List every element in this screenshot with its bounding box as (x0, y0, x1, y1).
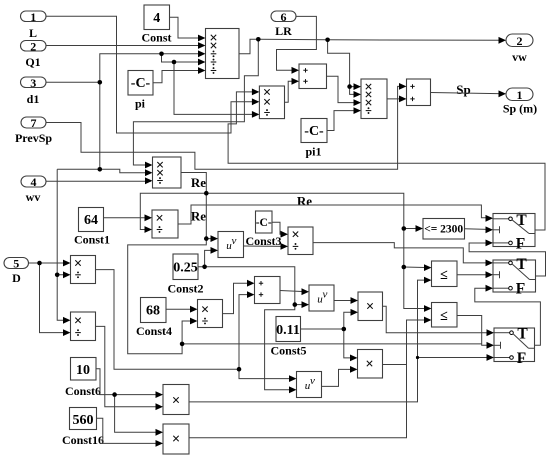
svg-text:≤: ≤ (440, 309, 448, 324)
svg-text:F: F (516, 235, 525, 252)
svg-text:T: T (516, 212, 527, 229)
wire 0.11 up branch to X1 input2 (344, 312, 357, 329)
junction node d1 y62 (172, 60, 177, 65)
inport 4 wv (21, 175, 46, 204)
svg-text:F: F (516, 281, 525, 298)
wire d1 down branch to Re1 area (99, 82, 101, 169)
math function block u^v 3 (297, 372, 322, 398)
wire U6 output to switch2 T input with jog (313, 243, 492, 263)
relational operator block LE1 (432, 261, 458, 287)
svg-text:Re: Re (191, 209, 206, 224)
product block Re1 three inputs x x / (153, 157, 182, 188)
wire Const3 to U6 input1 (272, 222, 287, 234)
wire sum U3 output to U4 input3 (327, 76, 360, 102)
wire X1 output to switch3 T input (383, 306, 493, 332)
wire Re node left branch to Re2 input2 (140, 193, 206, 229)
svg-text:L: L (29, 26, 37, 40)
product block U4 four inputs x x x / (361, 79, 387, 119)
svg-text:wv: wv (26, 190, 41, 204)
wire d1 left branch down to product a input2 (57, 169, 69, 274)
junction node on d1 wire (98, 80, 103, 85)
constant block Const16 value 560 (62, 408, 104, 448)
junction node X3 line branch (416, 356, 419, 359)
wire 0.11 down branch to X2 input1 (344, 329, 356, 358)
product block X1 single x (358, 292, 383, 321)
wire LE1 output to switch2 middle input (457, 274, 492, 276)
svg-text:v: v (310, 375, 315, 387)
svg-text:2: 2 (30, 39, 36, 53)
wire vw main line to outport vw (258, 39, 504, 40)
svg-text:7: 7 (31, 116, 37, 130)
sum block U5 + + (407, 79, 431, 106)
relational operator block <= 2300 (423, 219, 465, 240)
svg-text:68: 68 (146, 304, 160, 319)
product block b x / d1 over D (71, 312, 96, 341)
wire X2 output to LE2 input2 (383, 320, 431, 365)
wire Q1 to product U1 input2 (46, 45, 204, 47)
svg-text:5: 5 (13, 257, 19, 271)
svg-text:Sp (m): Sp (m) (503, 102, 537, 116)
junction node D wire (37, 261, 42, 266)
wire Re2 output long line y205 to switch1 T input (178, 205, 492, 224)
product block U6 x / right of Const3 (288, 227, 313, 255)
wire d1 horizontal at y169 to Re1 input2 (57, 169, 151, 172)
wire 10 junction down to X4 input1 (115, 395, 162, 433)
svg-text:pi: pi (135, 97, 146, 111)
constant block Const6 value 10 (65, 358, 101, 399)
relational operator block LE2 (432, 303, 458, 328)
wire Const2 0.25 line (198, 267, 295, 305)
svg-text:pi1: pi1 (305, 145, 321, 159)
junction node Re loop y344 (180, 342, 185, 347)
svg-text:4: 4 (153, 11, 160, 26)
sum block U8 + + (255, 277, 281, 304)
junction node 0.11 line (342, 327, 347, 332)
svg-text:v: v (323, 289, 328, 301)
wire relational <=2300 output to switch1 middle input (465, 228, 492, 231)
wire Re vertical node to uv1 input1 (206, 238, 216, 240)
svg-text:Const16: Const16 (62, 433, 104, 447)
constant block pi -C- (128, 71, 153, 111)
product block U1 five inputs x x / / / (206, 29, 240, 79)
wire d1 up branch to U1 input3 (100, 54, 204, 83)
svg-text:10: 10 (76, 363, 90, 378)
switch block SW1 (493, 212, 535, 253)
wire d1 branch down to U2 input3 (174, 62, 258, 114)
constant block Const5 value 0.11 (270, 317, 306, 358)
svg-text:Const6: Const6 (65, 384, 101, 398)
math function block u^v 1 (218, 232, 244, 258)
wire U1 output up to vw line (239, 39, 258, 54)
svg-text:-C-: -C- (304, 124, 324, 139)
svg-text:v: v (232, 235, 237, 247)
svg-text:4: 4 (31, 175, 37, 189)
svg-text:PrevSp: PrevSp (15, 131, 52, 145)
junction node Re uv1 input (204, 236, 209, 241)
constant block pi1 -C- (301, 119, 327, 159)
wire Const5 0.11 line with junction (301, 328, 344, 330)
wire Const1 64 to Re2 input1 (104, 217, 151, 219)
product block X4 single x (163, 424, 189, 454)
wire U4 output to sum U5 input2 (387, 98, 405, 100)
wire product a output line down to junction y369 (96, 270, 240, 370)
svg-text:vw: vw (512, 50, 527, 64)
wire Re branch down-left long loop to U7 input2 (128, 239, 207, 354)
svg-text:T: T (516, 256, 527, 273)
svg-text:Q1: Q1 (25, 55, 40, 69)
wire x417 branch to switch3 F input (418, 357, 493, 359)
junction node 10 line (112, 392, 117, 397)
wire PrevSp to sum U5 input1 long path (46, 86, 405, 169)
wire Re1 output down the Re vertical (181, 173, 206, 239)
wire uv2 output to X1 input1 (334, 300, 357, 302)
svg-text:Re: Re (191, 175, 206, 190)
outport 1 Sp (m) (503, 88, 537, 116)
svg-text:560: 560 (73, 413, 94, 428)
wire 0.25 node to uv2 input2 (295, 304, 308, 306)
wire 0.25 branch down to uv3 input2 (265, 305, 295, 390)
inport 7 PrevSp (15, 116, 52, 145)
svg-text:≤: ≤ (440, 268, 448, 283)
wire product b output down to X3 input2 (96, 326, 162, 406)
wire switch2 output feedback to switch1 F input (469, 243, 545, 276)
wire Const 4 to product U1 input1 (170, 17, 205, 38)
wire U2 output to sum U3 input2 (285, 81, 298, 102)
svg-text:Sp: Sp (456, 82, 470, 97)
svg-text:-C-: -C- (256, 217, 272, 229)
wire uv3 output up to X2 input2 (322, 369, 357, 386)
wire vw branch to U4 inputs 1 and 2 LR squared path (328, 40, 360, 87)
svg-text:64: 64 (84, 213, 98, 228)
product block X2 single x (358, 350, 383, 379)
wire Const4 68 to U7 input1 (166, 308, 196, 310)
wire d1 to junctions (46, 81, 100, 83)
wire Const16 560 down to X4 input2 (97, 418, 162, 443)
constant block Const4 value 68 (136, 298, 172, 339)
svg-text:1: 1 (517, 88, 523, 102)
switch block SW2 (493, 256, 536, 298)
wire sum U8 output to uv2 input1 (280, 291, 308, 292)
math function block u^v 2 (309, 285, 334, 311)
wire Re branch to relational <=2300 input (404, 228, 422, 230)
junction node d1 y53 (159, 52, 164, 57)
wire junction down branch to uv3 input1 (239, 369, 295, 378)
svg-text:T: T (517, 326, 528, 343)
inport 3 d1 (21, 76, 47, 106)
wire Re branch to LE1 input1 (404, 266, 430, 269)
constant block Const3 -C- (245, 211, 281, 248)
wire pi1 constant to U4 input4 (327, 111, 360, 131)
inport 5 D (4, 257, 29, 286)
junction node Re y193 (204, 191, 209, 196)
junction node LR squared (347, 84, 352, 89)
svg-text:Const: Const (141, 31, 171, 45)
constant block Const1 value 64 (74, 208, 110, 247)
junction node d1 y169 (98, 167, 103, 172)
svg-text:Const5: Const5 (270, 344, 306, 358)
svg-text:1: 1 (30, 10, 36, 24)
constant block Const value 4 (141, 5, 171, 45)
wire branch to U4 input2 (350, 87, 360, 95)
wire LE2 output to switch3 middle input (457, 316, 493, 346)
svg-text:LR: LR (275, 24, 292, 38)
wire 0.25 branch up to uv1 input2 (205, 250, 217, 266)
product block a x / D over d1 (71, 256, 96, 284)
constant block Const2 value 0.25 (167, 254, 203, 296)
wire wv port to Re1 input3 (46, 180, 151, 182)
junction node d1 y274 (55, 273, 60, 278)
product block U7 x / right of Const4 (198, 300, 223, 328)
product block Re2 two inputs x / (152, 210, 178, 238)
wire d1 continue down to product b input1 (57, 275, 69, 321)
junction node 0.25 down (293, 302, 298, 307)
svg-text:6: 6 (281, 10, 287, 24)
svg-text:F: F (517, 350, 526, 367)
wire X3 output long line to vertical x417 (189, 358, 418, 402)
wire X4 output up shared vertical to y380 (189, 365, 407, 438)
inport 6 LR (271, 10, 296, 38)
svg-text:<= 2300: <= 2300 (424, 224, 463, 236)
inport 2 Q1 (21, 39, 47, 69)
svg-text:D: D (12, 271, 21, 285)
svg-text:-C-: -C- (131, 76, 151, 91)
junction node product a output (237, 367, 242, 372)
junction node Re to LE1 (402, 265, 407, 270)
switch block SW3 (494, 326, 535, 367)
svg-text:0.25: 0.25 (173, 261, 198, 276)
inport 1 L (21, 10, 47, 40)
outport 2 vw (506, 34, 533, 64)
junction node Re to 2300 (402, 226, 407, 231)
svg-text:Const2: Const2 (167, 282, 203, 296)
svg-text:Const4: Const4 (136, 324, 172, 338)
product block X3 single x (163, 385, 189, 415)
wire L port to product U1 input2 via left vertical (46, 16, 258, 133)
svg-text:3: 3 (30, 76, 36, 90)
junction node vw line right (325, 38, 330, 43)
wire Re node right long branch at y193 (206, 193, 430, 308)
wire vw branch down-left to Re1 input1 (133, 39, 258, 165)
wire x417 up to LE1 input2 (418, 280, 431, 357)
wire junction up branch to sum U8 input2 (239, 295, 253, 370)
junction node vw line left (256, 37, 261, 42)
wire Const6 10 down to X3 input1 with junction (96, 369, 162, 395)
svg-text:Re: Re (297, 194, 312, 209)
junction node 0.25 line (202, 265, 207, 270)
sum block U3 + + (299, 64, 327, 89)
svg-text:Const1: Const1 (74, 233, 110, 247)
svg-text:2: 2 (517, 34, 523, 48)
wire Re loop branch right at y344 to switch3 area (182, 343, 482, 345)
wire uv1 output to U6 input2 (244, 245, 287, 247)
wire sum U5 output Sp to outport 1 (431, 93, 505, 94)
wire D branch down to product b input2 (40, 263, 70, 333)
wire D port with junction (29, 262, 70, 264)
wire switch3 output feedback to switch2 F input (475, 288, 541, 345)
wire switch1 output feedback to U2 input1 (228, 92, 545, 230)
svg-text:d1: d1 (27, 92, 40, 106)
wire d1 branch from node to U1 input4 (162, 54, 205, 62)
svg-text:0.11: 0.11 (276, 323, 300, 338)
wire U7 output up to sum U8 input1 (223, 283, 254, 313)
product block U2 three inputs x x / (259, 86, 284, 119)
wire LR port to sum U3 input1 (277, 16, 317, 70)
wire pi constant to U1 input5 (153, 71, 204, 83)
